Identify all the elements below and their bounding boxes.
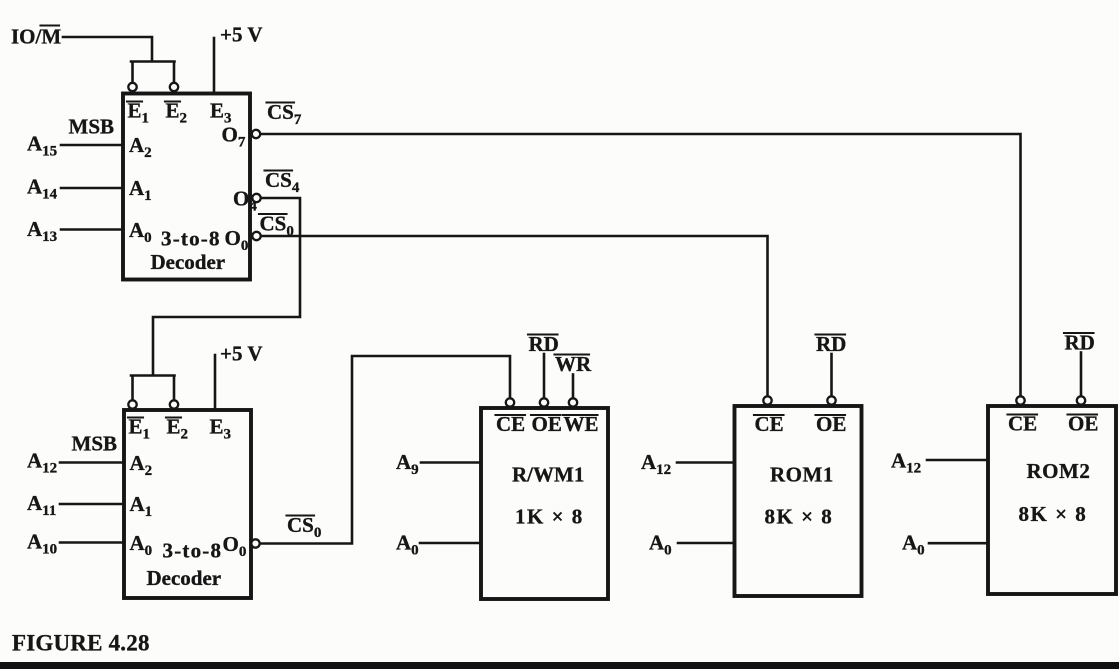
input A0 wire (U5)	[902, 531, 988, 559]
net CS4 label	[265, 168, 300, 196]
svg-text:A0: A0	[129, 218, 152, 246]
svg-text:E2: E2	[167, 415, 189, 443]
input A14 wire	[27, 175, 123, 203]
svg-text:A13: A13	[27, 217, 57, 245]
U1 output O0 bubble	[225, 226, 261, 254]
net CS0 label (U1)	[259, 212, 294, 240]
U2 box label 3-to-8 Decoder	[147, 539, 223, 591]
svg-text:E3: E3	[210, 415, 232, 443]
signal RD to U3 OE	[528, 332, 559, 398]
U3 pin CE	[496, 412, 526, 436]
U4 pin CE	[754, 412, 784, 436]
svg-text:E1: E1	[128, 99, 150, 127]
U1 box label 3-to-8 Decoder	[151, 227, 226, 275]
svg-text:ROM2: ROM2	[1027, 459, 1091, 483]
svg-text:A2: A2	[130, 451, 153, 479]
svg-text:CS0: CS0	[287, 513, 321, 541]
U4 label 8K x 8	[765, 505, 834, 529]
U2 pin E1	[128, 415, 150, 443]
svg-text:A15: A15	[27, 132, 57, 160]
signal RD to U5 OE	[1064, 331, 1095, 396]
svg-text:FIGURE 4.28: FIGURE 4.28	[12, 631, 150, 656]
wire CS0 to ROM1 CE	[261, 236, 768, 395]
signal WR to U3 WE	[555, 352, 593, 398]
svg-text:A0: A0	[130, 531, 153, 559]
input A12 wire (U2)	[27, 449, 124, 477]
svg-text:3-to-8: 3-to-8	[161, 227, 221, 251]
caption FIGURE 4.28	[12, 631, 150, 656]
U3 pin WE	[563, 412, 599, 436]
input A11 wire (U2)	[27, 491, 124, 519]
decoder U1 box	[123, 94, 250, 280]
svg-text:A12: A12	[891, 449, 921, 477]
wire CS7 to ROM2 CE	[261, 134, 1021, 395]
U1 pin A2	[129, 133, 152, 161]
input A12 wire (U4)	[641, 450, 735, 478]
svg-text:A10: A10	[27, 530, 57, 558]
svg-text:A14: A14	[27, 175, 58, 203]
svg-text:E1: E1	[129, 415, 151, 443]
input A13 wire	[27, 217, 123, 245]
U5 pin OE	[1068, 412, 1099, 436]
wire CS4 to U2 enable bracket	[131, 198, 300, 400]
U5 pin CE	[1008, 412, 1038, 436]
svg-text:MSB: MSB	[69, 115, 115, 139]
svg-text:MSB: MSB	[72, 432, 118, 456]
svg-text:R/WM1: R/WM1	[512, 463, 584, 487]
svg-text:1K × 8: 1K × 8	[515, 505, 584, 529]
input A0 wire (U3)	[396, 531, 481, 559]
U5 label 8K x 8	[1019, 502, 1088, 526]
U5 control bubbles	[1016, 396, 1085, 404]
wire IO/M to U1 enable bracket	[63, 37, 175, 82]
svg-text:RD: RD	[816, 332, 846, 356]
U2 pin E2	[166, 415, 188, 443]
svg-text:A2: A2	[129, 133, 152, 161]
input A0 wire (U4)	[649, 531, 735, 559]
svg-text:RD: RD	[1065, 331, 1095, 355]
U1 pin A0	[129, 218, 152, 246]
svg-text:ROM1: ROM1	[770, 463, 834, 487]
svg-text:O0: O0	[223, 532, 247, 560]
U4 control bubbles	[763, 396, 835, 404]
U2 pin A0	[130, 531, 153, 559]
U1 pin E2	[165, 99, 187, 127]
svg-text:IO/M: IO/M	[11, 25, 61, 49]
input A15 wire	[27, 132, 123, 160]
svg-text:CS4: CS4	[265, 168, 300, 196]
svg-text:E2: E2	[166, 99, 188, 127]
svg-text:+5 V: +5 V	[220, 23, 263, 47]
svg-text:A1: A1	[130, 492, 153, 520]
label MSB (U1)	[69, 115, 115, 139]
svg-text:A12: A12	[641, 450, 671, 478]
U1 pin A1	[129, 176, 152, 204]
svg-text:A1: A1	[129, 176, 152, 204]
svg-text:A0: A0	[902, 531, 925, 559]
svg-text:Decoder: Decoder	[151, 250, 226, 274]
U3 label 1K x 8	[515, 505, 584, 529]
svg-text:O0: O0	[225, 226, 249, 254]
input A10 wire (U2)	[27, 530, 124, 558]
U4 label ROM1	[770, 463, 834, 487]
power +5V (U1)	[214, 23, 263, 93]
svg-text:A0: A0	[396, 531, 419, 559]
svg-text:Decoder: Decoder	[147, 566, 222, 590]
svg-text:A12: A12	[27, 449, 57, 477]
svg-text:WR: WR	[555, 352, 592, 376]
node IO/M input label	[11, 25, 61, 49]
U2 output O0 bubble	[223, 532, 260, 560]
svg-text:+5 V: +5 V	[220, 342, 263, 366]
U3 pin OE	[531, 412, 562, 436]
svg-text:A9: A9	[396, 450, 419, 478]
input A12 wire (U5)	[891, 449, 988, 477]
svg-text:8K × 8: 8K × 8	[765, 505, 834, 529]
U4 pin OE	[816, 412, 847, 436]
U1 output O4 bubble	[233, 187, 261, 215]
svg-text:3-to-8: 3-to-8	[163, 539, 223, 563]
decoder U1 enable bubbles	[128, 83, 178, 91]
svg-text:A0: A0	[649, 531, 672, 559]
svg-text:CS7: CS7	[267, 100, 302, 128]
U2 pin A1	[130, 492, 153, 520]
memory U5 ROM2 box	[988, 406, 1116, 594]
svg-text:A11: A11	[27, 491, 56, 519]
input A9 wire (U3)	[396, 450, 481, 478]
bottom rule bar	[0, 662, 1119, 669]
U1 pin E1	[127, 99, 149, 127]
U3 label R/WM1	[512, 463, 584, 487]
U2 pin E3	[210, 415, 232, 443]
net CS7 label	[267, 100, 302, 128]
power +5V (U2)	[215, 342, 263, 410]
memory U3 R/WM1 box	[481, 408, 608, 599]
U1 output O7 bubble	[222, 123, 261, 151]
U1 pin E3	[210, 99, 232, 127]
U5 label ROM2	[1027, 459, 1091, 483]
decoder U2 enable bubbles	[128, 400, 178, 408]
svg-text:O7: O7	[222, 123, 246, 151]
U2 pin A2	[130, 451, 153, 479]
decoder U2 box	[124, 410, 251, 598]
memory U4 ROM1 box	[735, 406, 862, 596]
svg-text:8K × 8: 8K × 8	[1019, 502, 1088, 526]
U3 control bubbles	[506, 398, 577, 406]
net CS0 label (U2)	[287, 513, 322, 541]
signal RD to U4 OE	[816, 332, 847, 396]
label MSB (U2)	[72, 432, 118, 456]
wire CS0 (U2) to R/WM1 CE	[260, 356, 510, 544]
